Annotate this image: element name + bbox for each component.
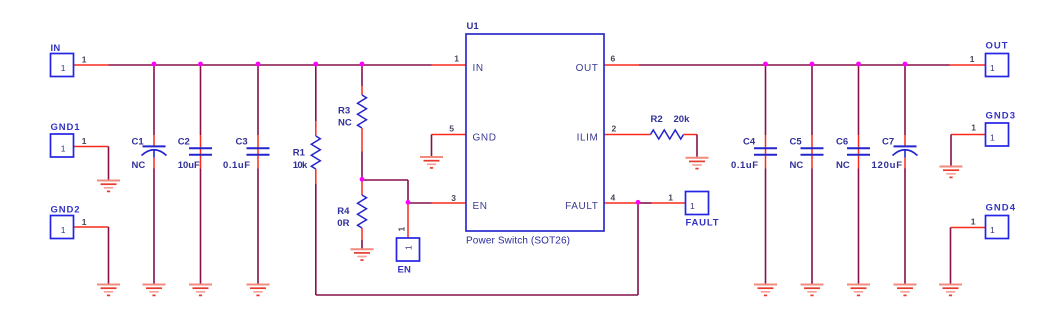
svg-text:1: 1 [61,225,66,235]
svg-text:R2: R2 [651,114,663,125]
svg-text:OUT: OUT [986,41,1008,52]
svg-text:0R: 0R [337,218,349,229]
svg-text:NC: NC [132,160,146,171]
svg-text:IN: IN [51,43,61,54]
svg-text:C1: C1 [132,137,145,148]
svg-text:ILIM: ILIM [577,133,599,144]
svg-text:1: 1 [82,217,87,227]
svg-text:1: 1 [990,63,995,73]
svg-text:20k: 20k [674,114,691,125]
svg-text:1: 1 [971,217,976,227]
svg-text:5: 5 [449,124,454,134]
svg-text:OUT: OUT [576,63,599,74]
svg-text:1: 1 [970,54,975,64]
svg-text:C4: C4 [743,137,756,148]
svg-text:2: 2 [612,124,617,134]
svg-text:0.1uF: 0.1uF [223,160,250,171]
svg-text:IN: IN [473,63,484,74]
svg-text:C7: C7 [882,137,894,148]
svg-text:1: 1 [61,144,66,154]
svg-text:R1: R1 [293,148,306,159]
svg-text:1: 1 [690,201,695,211]
svg-text:1: 1 [82,136,87,146]
svg-text:1: 1 [397,227,407,232]
svg-text:NC: NC [338,118,352,129]
svg-text:GND4: GND4 [986,203,1016,214]
svg-text:4: 4 [611,193,616,203]
svg-text:1: 1 [668,193,673,203]
svg-text:GND1: GND1 [51,122,81,133]
svg-text:1: 1 [82,55,87,65]
svg-text:FAULT: FAULT [686,218,719,229]
svg-text:0.1uF: 0.1uF [731,160,758,171]
svg-text:U1: U1 [467,21,480,32]
svg-text:120uF: 120uF [872,160,903,171]
svg-text:1: 1 [454,54,459,64]
svg-text:10uF: 10uF [178,160,200,171]
svg-text:EN: EN [473,201,488,212]
svg-text:C6: C6 [836,137,848,148]
svg-text:3: 3 [451,193,456,203]
svg-text:C3: C3 [236,137,248,148]
svg-text:GND2: GND2 [51,205,80,216]
svg-text:NC: NC [790,160,804,171]
svg-text:NC: NC [836,160,850,171]
svg-text:10k: 10k [293,160,308,171]
svg-text:1: 1 [990,133,995,143]
svg-text:1: 1 [990,225,995,235]
svg-text:R3: R3 [338,106,350,117]
svg-text:FAULT: FAULT [565,201,598,212]
svg-text:1: 1 [404,245,414,250]
svg-text:GND: GND [473,133,497,144]
svg-text:GND3: GND3 [986,111,1016,122]
svg-text:Power Switch (SOT26): Power Switch (SOT26) [466,236,570,247]
svg-text:6: 6 [611,54,616,64]
svg-text:C2: C2 [178,137,190,148]
svg-text:1: 1 [971,123,976,133]
svg-text:EN: EN [398,265,412,276]
svg-text:C5: C5 [790,137,803,148]
svg-text:1: 1 [61,63,66,73]
svg-text:R4: R4 [337,206,350,217]
